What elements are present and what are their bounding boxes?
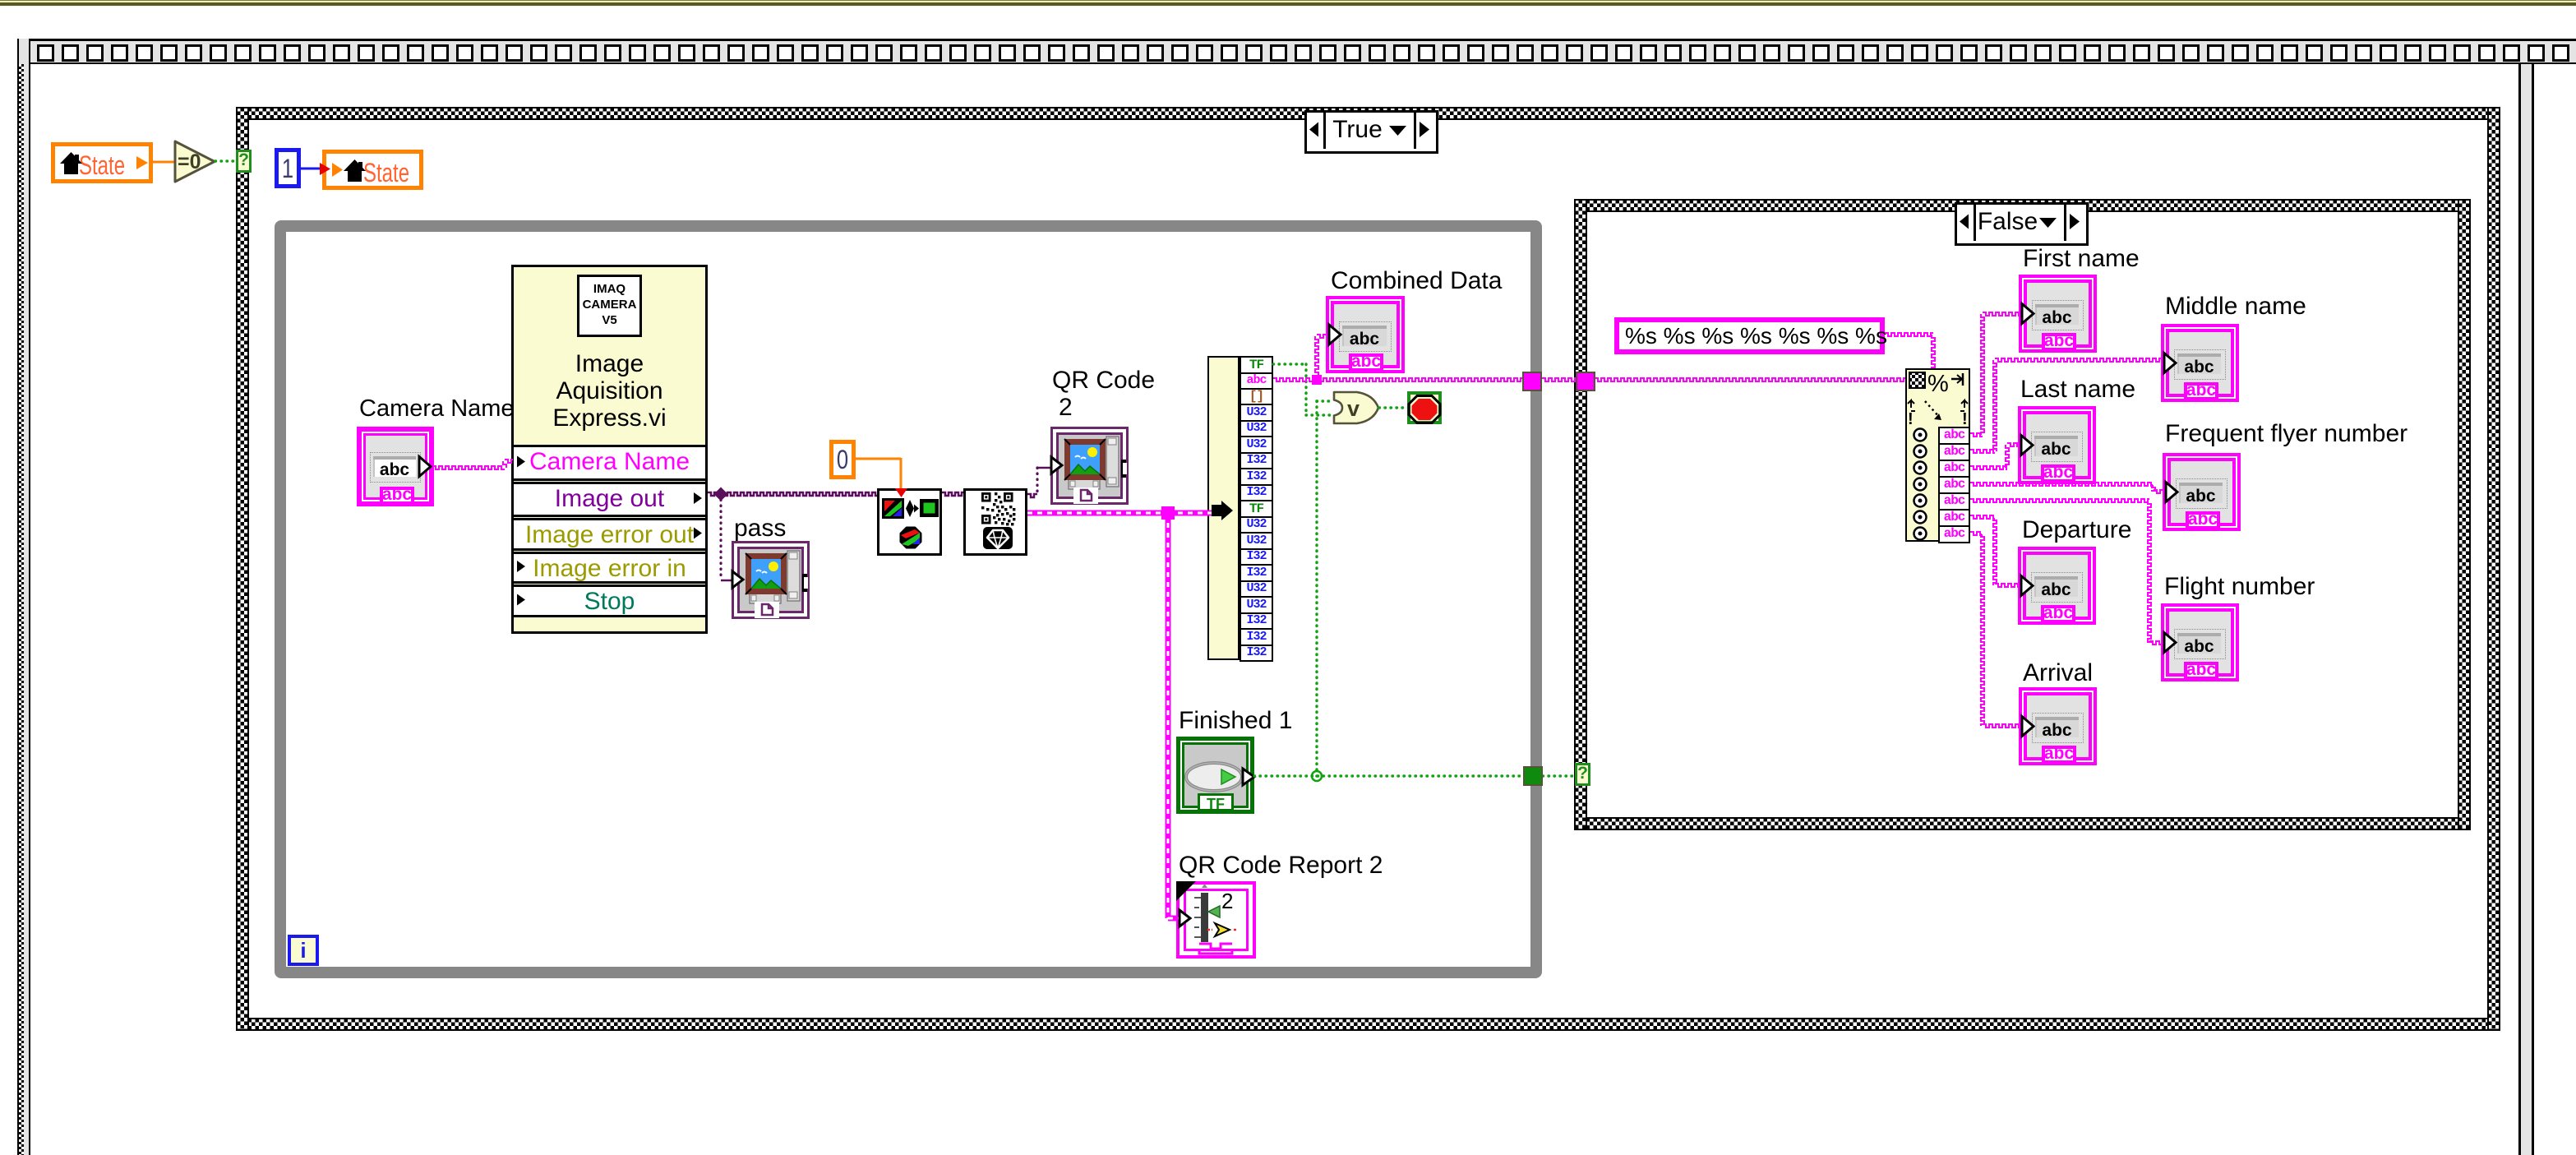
svg-text:v: v	[1347, 396, 1360, 421]
svg-text:!: !	[1908, 410, 1914, 428]
svg-text:!: !	[1962, 410, 1968, 428]
svg-text:=0: =0	[178, 150, 201, 173]
svg-text:%: %	[1927, 371, 1949, 397]
svg-text:2: 2	[1221, 889, 1233, 913]
